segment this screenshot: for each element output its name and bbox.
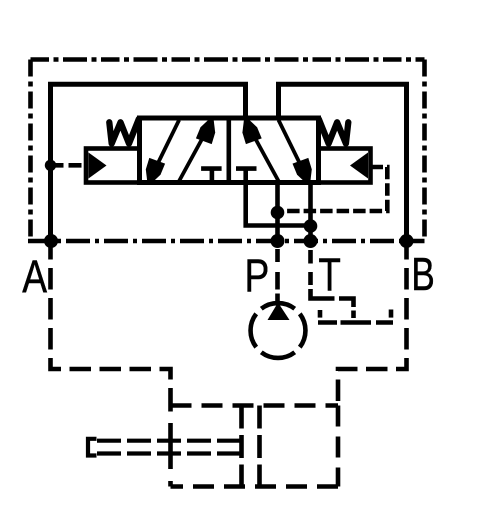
valve V1 left chamber flow arrow (down-left, head bottom) [146, 120, 179, 184]
valve V1 right chamber flow arrow P to A [242, 118, 278, 181]
junction dot T port [304, 234, 318, 248]
svg-text:B: B [411, 248, 434, 300]
housing boundary frame right [422, 60, 427, 242]
solenoid S2 (right) box [319, 149, 371, 183]
pilot line to solenoid S1 (dashed) [51, 163, 87, 168]
wire B to cylinder (dashed) [338, 241, 407, 406]
valve V1 centre divider [227, 118, 232, 183]
wire T drop (solid) [308, 183, 313, 242]
housing boundary frame left [28, 60, 33, 242]
valve V1 left chamber flow arrow (up-right, head top) [179, 118, 215, 181]
junction dot T-branch [304, 219, 318, 233]
wire A to cylinder (dashed) [51, 241, 171, 406]
wire A riser (solid, port A to valve port 4) [51, 84, 246, 241]
pump P1 flow triangle [268, 303, 290, 321]
spring left (zigzag) [109, 119, 139, 144]
wire T to tank (dashed) [311, 246, 354, 319]
junction dot on wire A at pilot [45, 160, 56, 171]
pump P1 circle (dashed arcs) [251, 303, 306, 358]
wire valve port to T (solid, down then right) [246, 183, 311, 226]
valve V1 right chamber blocked port (T-bar) [236, 169, 257, 183]
wire P to pump (dashed) [275, 246, 280, 303]
main ports line (dash-dot) [28, 239, 425, 244]
svg-text:T: T [318, 248, 341, 300]
solenoid S1 (left) box [86, 149, 140, 183]
valve V1 right chamber flow arrow B to T [279, 120, 312, 184]
junction dot P port [271, 234, 285, 248]
valve V1 left chamber blocked port (T-bar) [201, 169, 222, 183]
cylinder C1 barrel (dashed) [171, 403, 339, 408]
housing boundary frame (dash-dot) top [31, 57, 425, 62]
svg-text:P: P [245, 249, 270, 301]
junction dot A port [44, 234, 58, 248]
cylinder C1 rod end cap [88, 439, 97, 456]
svg-text:A: A [22, 251, 47, 303]
cylinder C1 piston line 2 [257, 406, 262, 487]
junction dot P-pilot [271, 206, 285, 220]
pilot line to solenoid S2 (dashed) [278, 167, 388, 211]
wire P drop (solid) [275, 183, 280, 242]
tank T1 left wall [318, 310, 323, 318]
spring right (zigzag) [319, 119, 349, 144]
cylinder C1 rod top line [97, 439, 242, 443]
junction dot B port [400, 234, 414, 248]
valve V1 body (4/2 directional valve) [140, 118, 319, 183]
cylinder C1 rod bottom line [97, 451, 242, 455]
solenoid S2 triangle [350, 153, 368, 179]
wire B riser (solid, valve port 2 to port B) [279, 84, 407, 241]
tank T1 right wall [389, 310, 394, 318]
tank T1 bottom [318, 320, 393, 325]
cylinder C1 piston line 1 [239, 406, 244, 487]
solenoid S1 triangle [89, 153, 107, 179]
